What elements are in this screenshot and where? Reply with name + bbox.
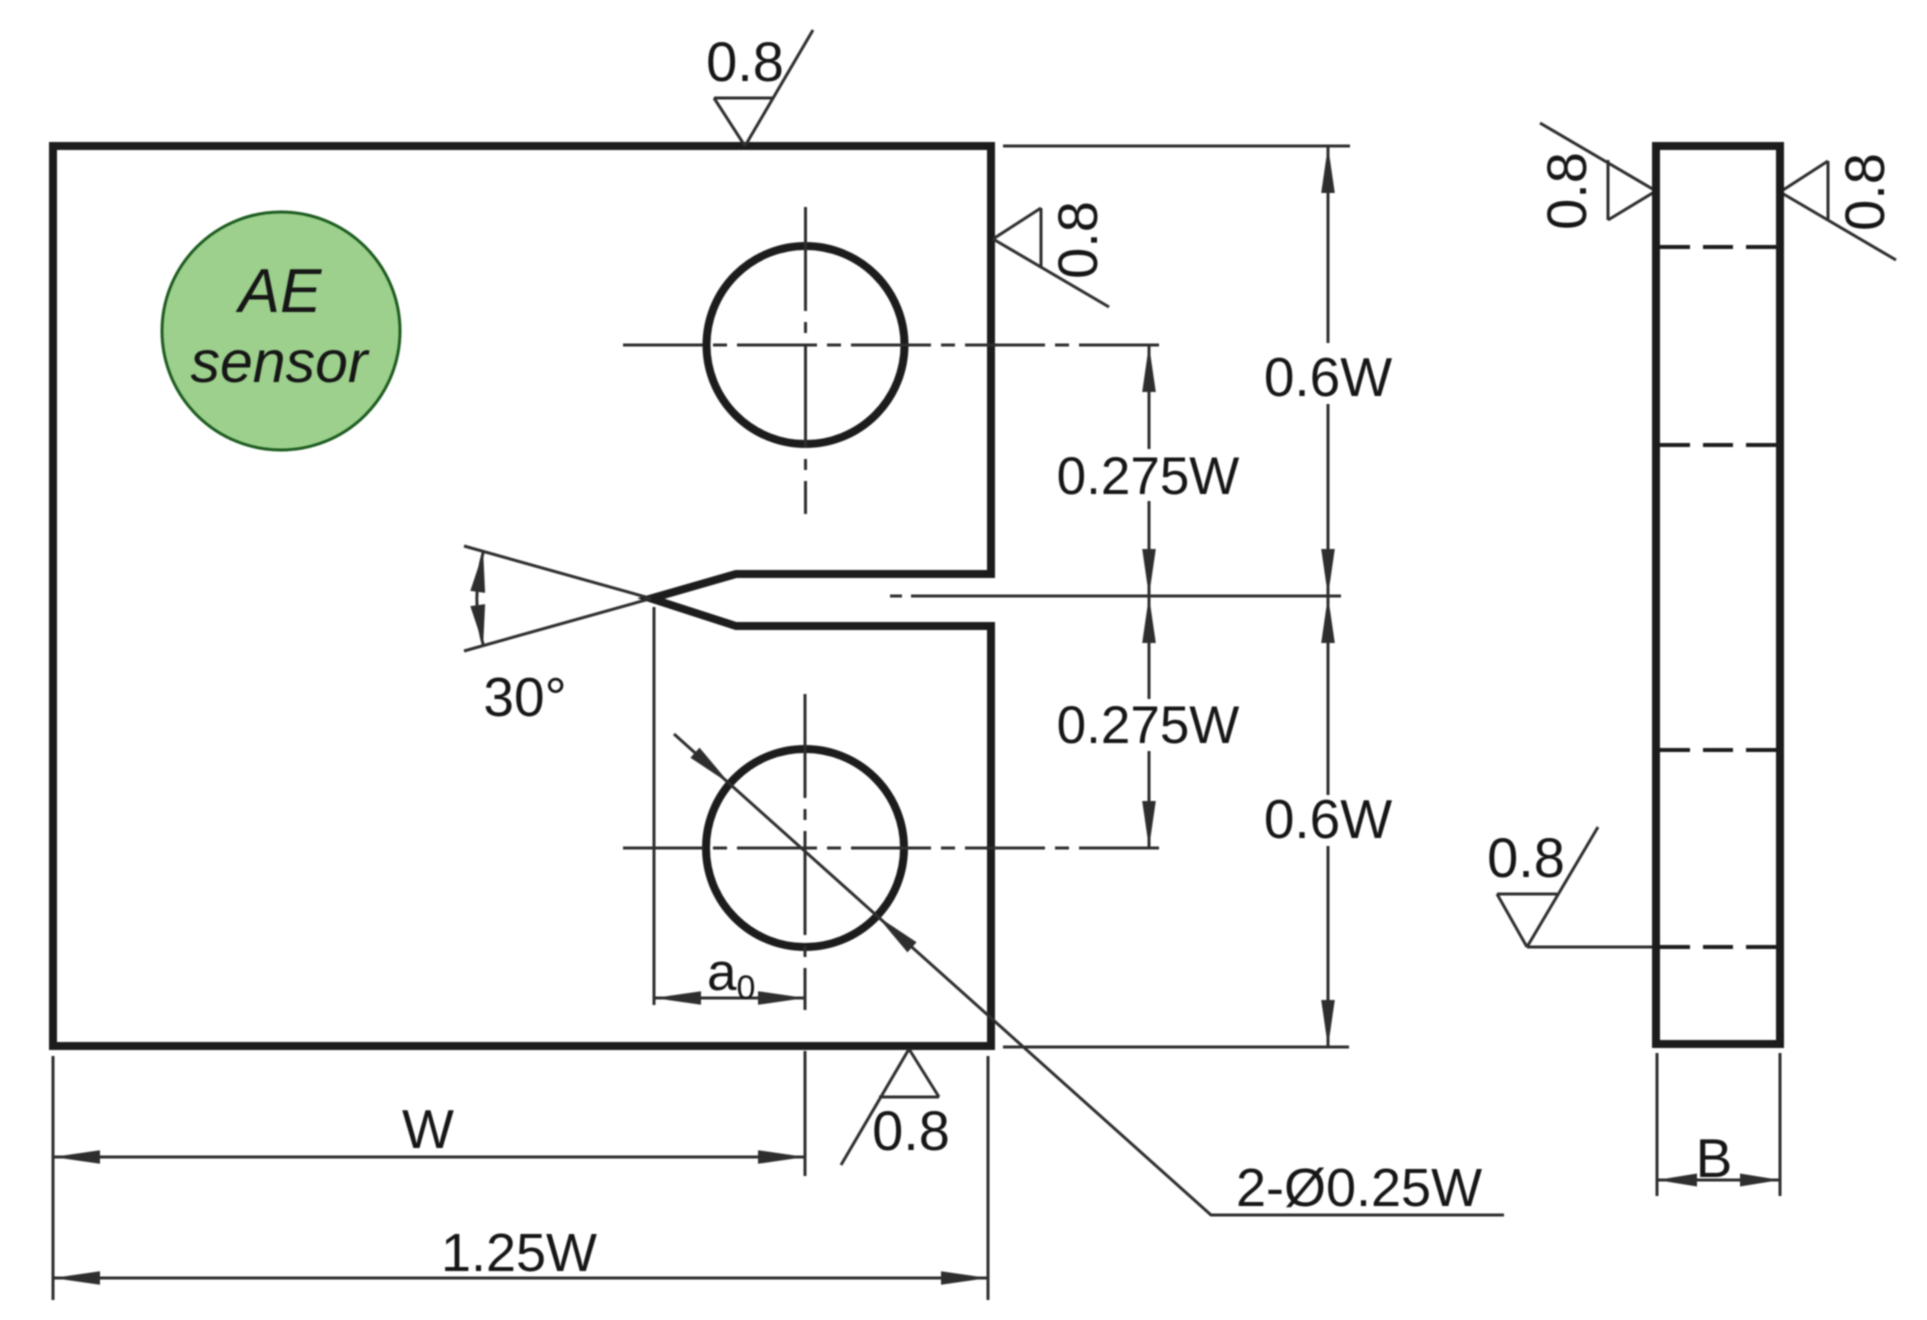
0.6W lower arrow down [1321, 1000, 1335, 1047]
notch flank extension line upper [464, 546, 651, 599]
1.25W arrow left [53, 1271, 100, 1285]
svg-text:2-Ø0.25W: 2-Ø0.25W [1236, 1158, 1482, 1218]
svg-text:AE: AE [235, 257, 322, 326]
svg-text:0.8: 0.8 [1535, 152, 1598, 230]
angle arc arrow bottom [470, 604, 485, 645]
B arrow right [1740, 1174, 1780, 1187]
1.25W arrow right [941, 1271, 988, 1285]
0.6W upper arrow down [1321, 549, 1335, 596]
side view hidden line hole bottom upper [1660, 748, 1776, 752]
svg-text:0.8: 0.8 [1487, 826, 1565, 889]
dimension line 0.6W lower [1327, 596, 1330, 1047]
0.275W upper arrow down [1142, 549, 1156, 596]
svg-text:0.8: 0.8 [1833, 153, 1896, 231]
0.275W lower arrow down [1142, 801, 1156, 848]
hole centerline extension down [804, 1051, 807, 1176]
svg-text:sensor: sensor [190, 329, 369, 395]
surface finish symbol bottom edge [841, 1049, 939, 1165]
surface finish symbol top edge [714, 30, 813, 146]
side view outline [1656, 146, 1780, 1044]
svg-text:B: B [1696, 1127, 1733, 1189]
left edge extension line [52, 1056, 55, 1300]
side view hidden line hole bottom lower [1660, 945, 1776, 949]
a0 arrow right [758, 991, 805, 1005]
a0 arrow left [654, 991, 701, 1005]
svg-text:1.25W: 1.25W [441, 1223, 597, 1283]
svg-text:0.8: 0.8 [872, 1099, 950, 1162]
B extension line right [1779, 1053, 1782, 1196]
dimension line B [1657, 1179, 1780, 1182]
dimension line 0.275W upper [1148, 345, 1151, 596]
svg-text:0.8: 0.8 [706, 30, 784, 93]
surface finish symbol right edge [993, 208, 1109, 307]
angle dimension arc [477, 552, 483, 644]
dimension line a0 [654, 997, 805, 1000]
W arrow left [53, 1150, 100, 1164]
surface finish symbol side view right edge [1780, 161, 1896, 260]
side view hidden line hole top lower [1660, 443, 1776, 447]
svg-text:0.275W: 0.275W [1057, 447, 1240, 506]
pin hole top [707, 246, 905, 444]
svg-text:30°: 30° [483, 666, 566, 728]
dimension line 0.275W lower [1148, 596, 1151, 848]
svg-text:0.6W: 0.6W [1264, 788, 1392, 850]
dimension line 0.6W upper [1327, 146, 1330, 596]
bottom edge extension line [1003, 1046, 1349, 1049]
W arrow right [758, 1150, 805, 1164]
0.6W upper arrow up [1321, 146, 1335, 193]
dimension line 1.25W [53, 1277, 988, 1280]
svg-text:0.275W: 0.275W [1057, 696, 1240, 755]
diameter leader arrow upper [690, 748, 730, 784]
diameter leader arrow lower [877, 916, 917, 952]
surface finish symbol side view left edge [1540, 123, 1656, 220]
notch flank extension line lower [464, 599, 651, 652]
hole diameter leader line [674, 734, 1504, 1215]
0.275W lower arrow up [1142, 596, 1156, 643]
B extension line left [1656, 1053, 1659, 1196]
bottom hole vertical centerline [804, 694, 807, 1010]
surface finish symbol with leader (hole bore) [1497, 827, 1656, 947]
top edge extension line [1003, 145, 1350, 148]
angle arc arrow top [470, 552, 485, 593]
svg-text:W: W [402, 1098, 454, 1160]
svg-text:0.8: 0.8 [1046, 201, 1109, 279]
svg-text:0.6W: 0.6W [1264, 346, 1392, 408]
notch centerline [890, 595, 1349, 598]
svg-text:a0: a0 [707, 943, 755, 1007]
AE sensor circle [162, 212, 400, 450]
side view hidden line hole top upper [1660, 245, 1776, 249]
specimen front view outline with machined notch [53, 146, 991, 1046]
pin hole bottom [706, 749, 904, 947]
right edge extension line [987, 1056, 990, 1300]
notch tip vertical extension line [653, 607, 656, 1005]
bottom hole horizontal centerline [623, 847, 1167, 850]
0.275W upper arrow up [1142, 345, 1156, 392]
0.6W lower arrow up [1321, 596, 1335, 643]
B arrow left [1657, 1174, 1697, 1187]
dimension line W [53, 1156, 805, 1159]
top hole horizontal centerline [623, 344, 1167, 347]
top hole vertical centerline [804, 207, 807, 514]
